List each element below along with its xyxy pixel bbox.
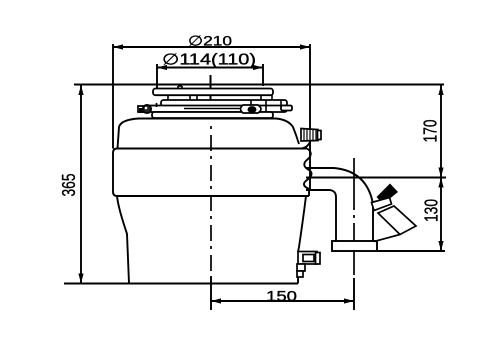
svg-text:170: 170 <box>420 120 440 143</box>
svg-text:∅210: ∅210 <box>188 32 232 48</box>
svg-text:∅114(110): ∅114(110) <box>162 52 256 69</box>
svg-text:130: 130 <box>421 199 441 222</box>
svg-text:365: 365 <box>59 174 79 197</box>
svg-text:150: 150 <box>266 288 297 305</box>
